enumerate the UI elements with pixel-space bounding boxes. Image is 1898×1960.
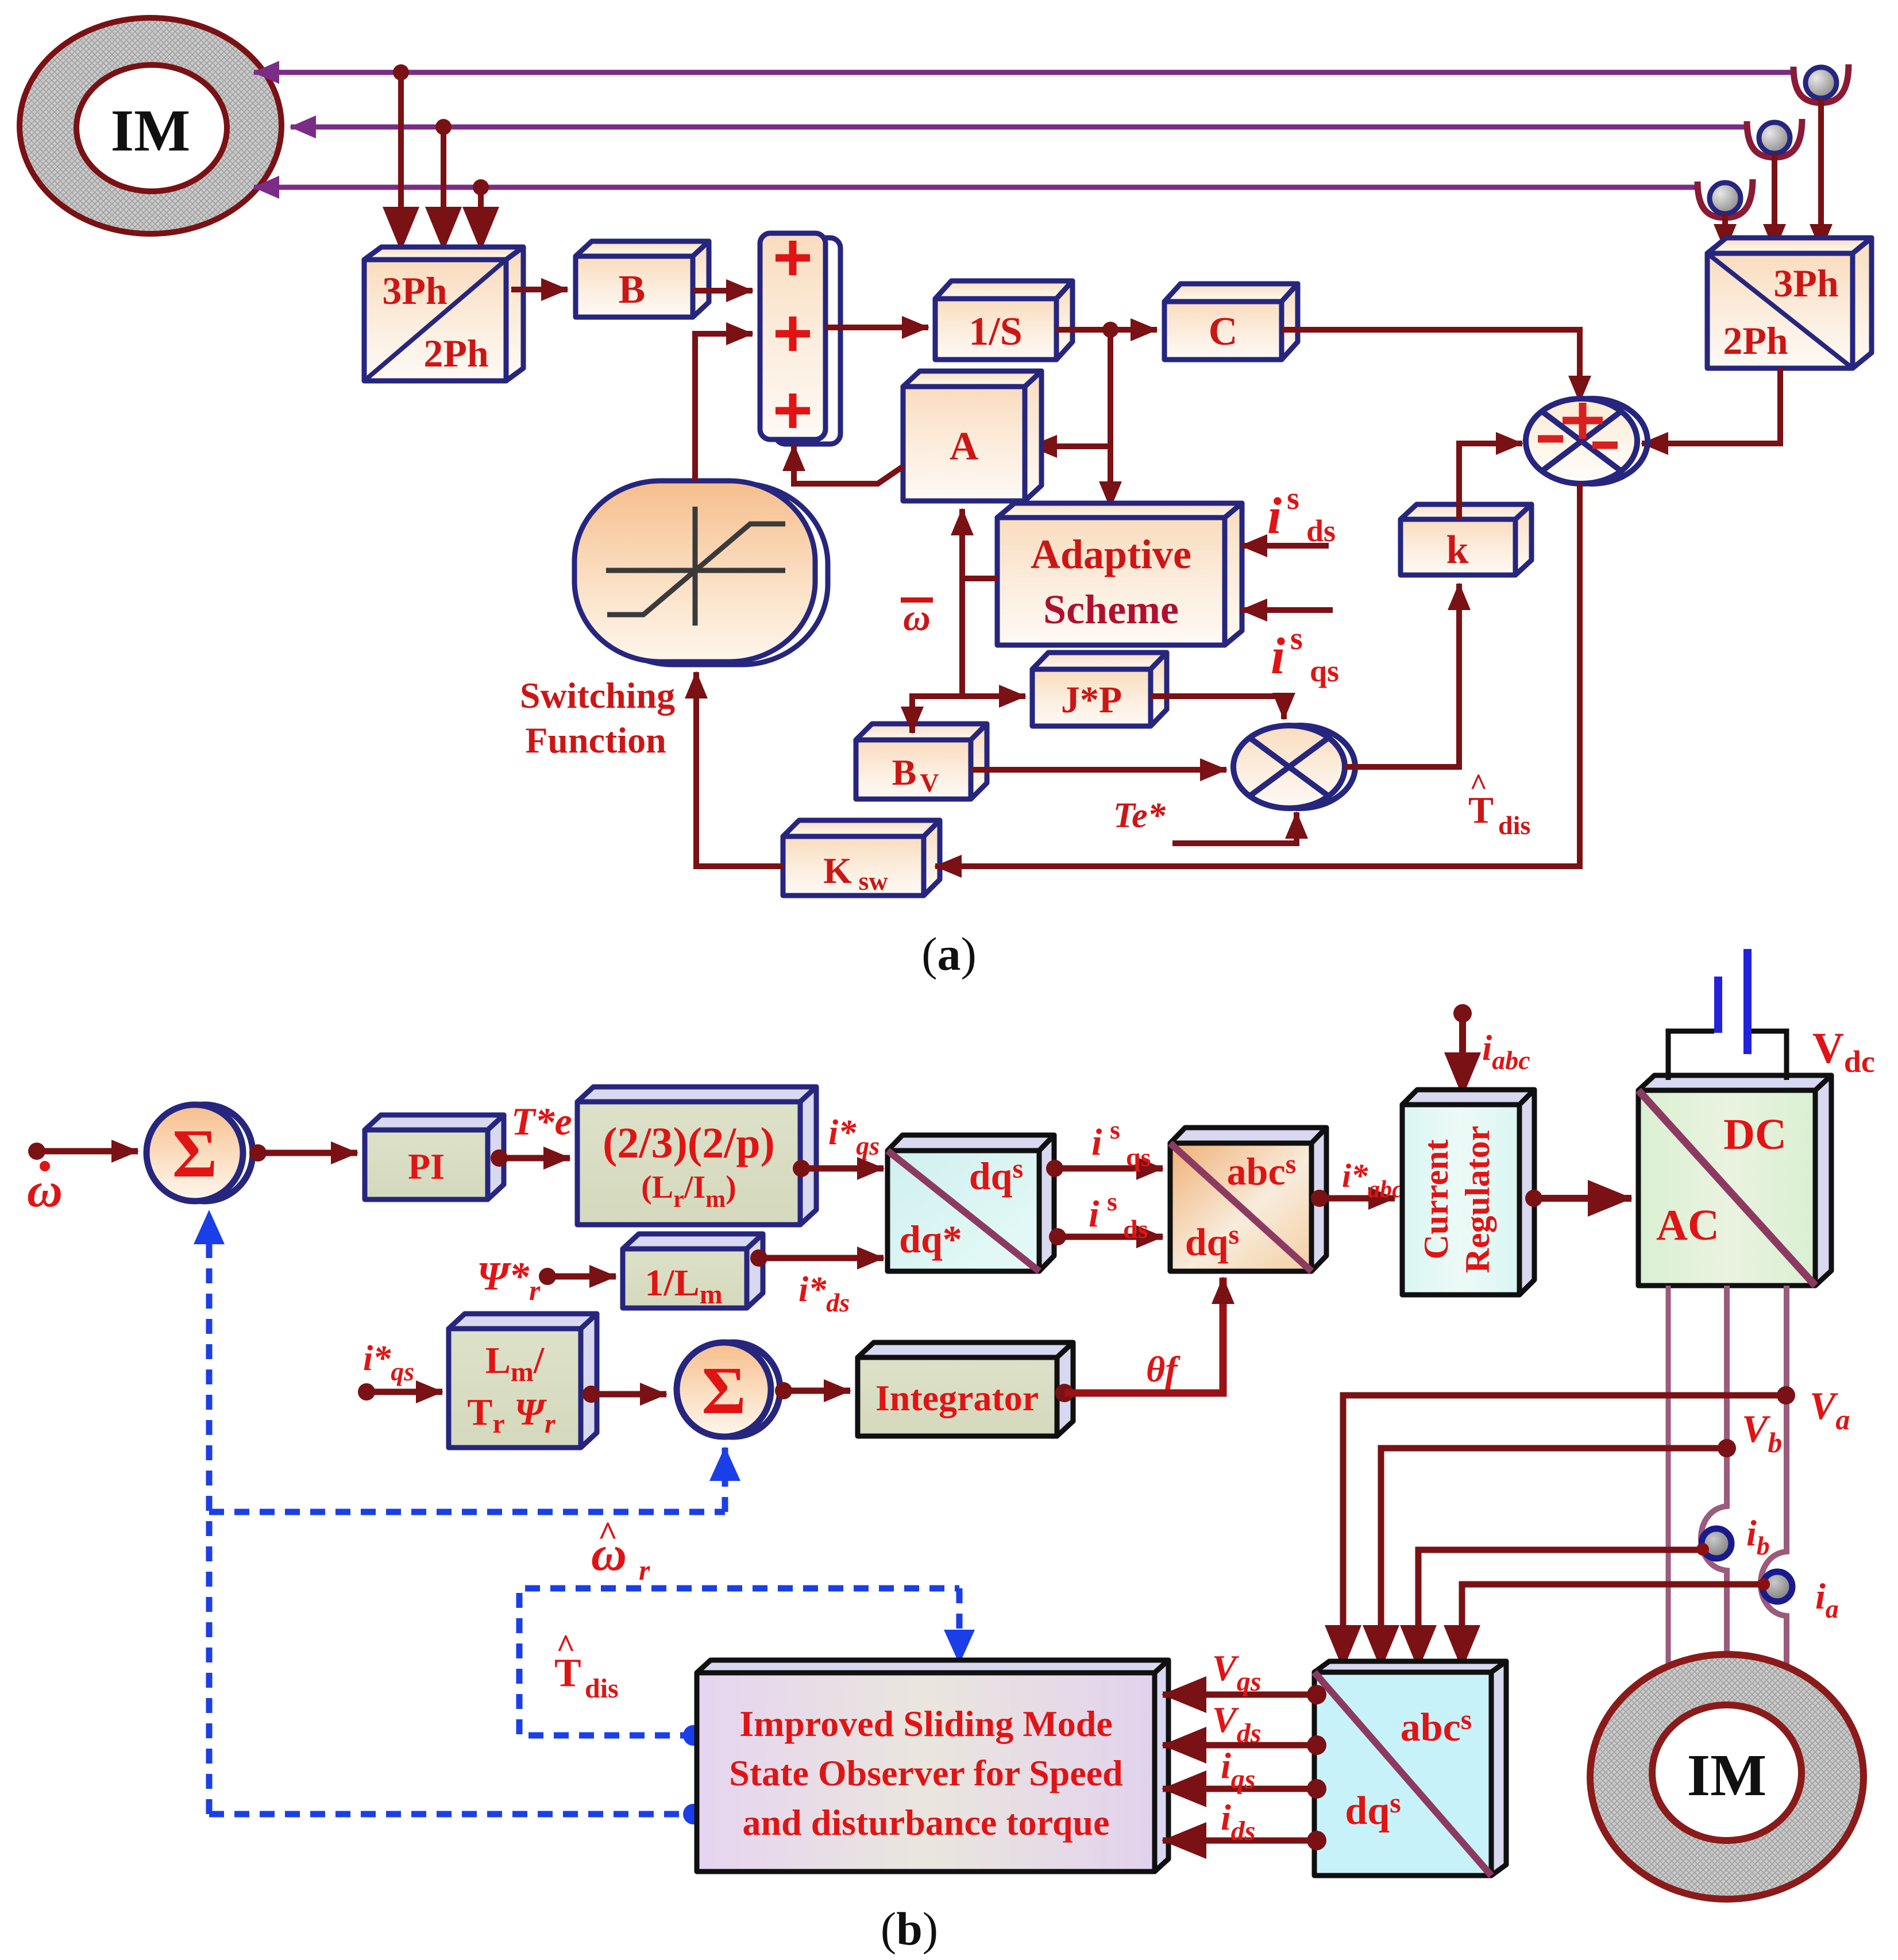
wire: current regulator to inverter: [1534, 1195, 1631, 1202]
input omega-dot-star node: [28, 1143, 45, 1160]
wire: sum2 to Integrator: [784, 1388, 850, 1394]
label is-qs (between dq and abc): [1091, 1115, 1151, 1172]
blue dashed: sum2 riser: [722, 1448, 728, 1512]
wire: Va feedback to measurement abc box: [1343, 1395, 1786, 1669]
node: 1/Lm output: [750, 1249, 767, 1267]
svg-text:ω: ω: [903, 597, 931, 639]
wire: Ksw output left and up into switching function: [696, 672, 783, 866]
svg-text:^: ^: [1469, 767, 1487, 802]
wire: Lm/Tr to sum2: [591, 1391, 666, 1398]
wire: dq to abc (ds): [1058, 1234, 1163, 1240]
svg-text:dq*: dq*: [899, 1217, 962, 1261]
blue dashed: lower horizontal into observer: [209, 1811, 689, 1818]
svg-text:Regulator: Regulator: [1459, 1126, 1496, 1274]
wire: PI to (2/3)(2/p): [499, 1155, 570, 1162]
svg-text:B: B: [892, 752, 917, 793]
wire: motor phase line 2 (purple, y=221): [291, 125, 1749, 130]
wire: tee left and down into Bv: [912, 696, 962, 733]
svg-text:and disturbance torque: and disturbance torque: [743, 1802, 1110, 1843]
svg-text:θf: θf: [1146, 1349, 1181, 1390]
wire: integrator output theta-f up into abc block: [1064, 1278, 1223, 1393]
wire: inverter phase b with ib sensor bump: [1701, 1286, 1727, 1686]
svg-text:Improved Sliding Mode: Improved Sliding Mode: [739, 1703, 1113, 1744]
svg-text:A: A: [950, 425, 979, 469]
wire: Bv output to multiplier left: [971, 767, 1226, 773]
wire: B to summing block: [693, 288, 753, 294]
wire: multiplier output right and up into K: [1345, 584, 1459, 767]
svg-text:i: i: [1091, 1121, 1102, 1163]
block DC/AC inverter: [1638, 1075, 1831, 1286]
node i*qs input: [358, 1383, 375, 1400]
svg-text:C: C: [1209, 310, 1238, 354]
svg-text:k: k: [1446, 528, 1469, 572]
svg-text:State Observer for Speed: State Observer for Speed: [729, 1753, 1123, 1793]
wire: ids to observer: [1163, 1838, 1317, 1844]
current sensor hook 2: [1747, 119, 1802, 250]
blue node: observer upper-left: [683, 1725, 704, 1746]
node Va: [1777, 1386, 1795, 1405]
blue dashed: horizontal to sum2 riser: [209, 1509, 725, 1515]
svg-text:Scheme: Scheme: [1043, 587, 1179, 632]
block 1/S: [935, 281, 1073, 360]
wire: abc to current regulator: [1320, 1195, 1395, 1202]
node on phase line 2: [435, 119, 452, 135]
label i-s-qs (fig a): [1271, 621, 1339, 688]
svg-text:r: r: [639, 1554, 650, 1586]
svg-text:DC: DC: [1723, 1110, 1787, 1159]
block Bv: [856, 724, 987, 799]
wire: tee right into J*P: [962, 693, 1025, 699]
svg-text:2Ph: 2Ph: [423, 331, 488, 375]
label i-s-ds (fig a): [1267, 481, 1336, 548]
svg-text:i: i: [1267, 488, 1282, 545]
summing circle 2 (sigma): [677, 1342, 780, 1437]
blue dashed: omega-hat-r loop from observer left: [519, 1588, 959, 1735]
label omega-bar: [901, 597, 933, 639]
wire: i*qs to Lm/Tr block: [367, 1389, 442, 1395]
wire: iqs to observer: [1163, 1786, 1317, 1792]
blue dashed: sum1 riser: [206, 1211, 213, 1814]
label T-hat-dis (fig b): [554, 1627, 619, 1704]
battery Vdc: [1668, 949, 1787, 1080]
svg-text:ds: ds: [1123, 1214, 1148, 1244]
block 1/Lm: [623, 1234, 763, 1310]
wire: K up and right into summer left: [1459, 443, 1522, 519]
svg-text:(b): (b): [881, 1903, 938, 1955]
summer circle (+ - -): [1526, 399, 1648, 484]
block Lm/TrPsir: [449, 1314, 597, 1448]
wire: i_abc down into current regulator: [1459, 1013, 1466, 1096]
node: dq output qs: [1046, 1160, 1063, 1177]
svg-text:qs: qs: [1126, 1143, 1151, 1172]
wire: i-s-ds into Adaptive right: [1241, 543, 1329, 549]
svg-text:1/S: 1/S: [969, 310, 1022, 354]
label T-hat-dis (fig a): [1468, 767, 1530, 840]
svg-text:s: s: [1290, 621, 1303, 657]
svg-text:s: s: [1287, 481, 1299, 516]
label is-ds (between dq and abc): [1089, 1187, 1148, 1244]
induction motor IM (fig a): [20, 18, 281, 234]
wire: down to J*P / Bv tee: [959, 578, 965, 696]
wire: sum1 to PI: [258, 1150, 357, 1156]
wire: tap 1 down to 3Ph/2Ph left: [398, 72, 404, 250]
wire: inverter phase c with ia sensor bump: [1761, 1286, 1787, 1695]
svg-text:Function: Function: [525, 720, 666, 761]
svg-text:qs: qs: [1310, 654, 1339, 688]
node on phase line 1: [393, 64, 409, 80]
node: sum1 output: [249, 1144, 267, 1162]
wire: branch left into A: [1031, 443, 1110, 449]
wire: i-s-qs into Adaptive right: [1241, 607, 1333, 613]
label omega-dot-star: [27, 1161, 63, 1217]
node: current regulator output: [1525, 1190, 1542, 1207]
wire: tap 3 down: [478, 187, 484, 250]
svg-text:s: s: [1107, 1187, 1117, 1216]
node: PI output: [491, 1149, 508, 1167]
wire: switching function output up into summing block: [695, 334, 753, 481]
wire: A loop to summing block bottom: [794, 445, 903, 484]
svg-text:Te*: Te*: [1113, 796, 1166, 835]
svg-text:Adaptive: Adaptive: [1031, 531, 1191, 577]
svg-text:3Ph: 3Ph: [1773, 261, 1838, 305]
wire: summer output down and left into Ksw: [935, 484, 1580, 866]
switching function block (stadium with saturation curve): [574, 481, 828, 665]
node iqs: [1307, 1779, 1326, 1799]
node psi*r input: [539, 1268, 556, 1285]
node on phase line 3: [473, 179, 489, 195]
svg-text:Tr Ψr: Tr Ψr: [467, 1391, 556, 1439]
wire: 1/Lm to dq block: [759, 1255, 884, 1261]
block C: [1164, 284, 1298, 360]
current sensor ball ia: [1762, 1572, 1792, 1602]
block Ksw: [783, 820, 940, 896]
blue node: observer lower-left: [683, 1804, 704, 1824]
wire: ib feedback: [1418, 1550, 1707, 1669]
svg-text:dis: dis: [585, 1673, 619, 1704]
node: (2/3) output: [793, 1160, 810, 1177]
block Improved Sliding Mode State Observer: [697, 1660, 1168, 1872]
block Integrator: [858, 1342, 1073, 1436]
wire: (2/3) to dq block: [801, 1166, 884, 1172]
svg-text:Current: Current: [1417, 1140, 1455, 1260]
node Vb: [1718, 1439, 1736, 1457]
block A: [903, 371, 1041, 501]
block dqs/dq*: [888, 1135, 1054, 1271]
svg-text:(a): (a): [921, 928, 977, 980]
wire: 1/S to C with junction: [1056, 327, 1157, 333]
wire: Vb feedback: [1381, 1448, 1727, 1669]
induction motor IM (fig b): [1590, 1654, 1864, 1899]
node Vds: [1307, 1735, 1326, 1755]
node: abc output: [1311, 1190, 1328, 1207]
wire: motor phase line 3 (purple, y=326): [254, 185, 1700, 190]
wire: 3Ph/2Ph left to B: [511, 287, 568, 292]
svg-text:sw: sw: [858, 866, 888, 896]
wire: omega-hat from Adaptive left edge: [962, 576, 997, 581]
node on 1/S-C wire: [1102, 322, 1118, 338]
wire: input to sum1: [37, 1148, 138, 1155]
svg-text:^: ^: [598, 1515, 618, 1553]
summing block (vertical, three +): [760, 233, 840, 444]
wire: up into A bottom: [959, 509, 965, 578]
wire: right 3Ph/2Ph output down-left to summing junction: [1642, 368, 1780, 443]
wire: motor phase line 1 (purple, y=126): [254, 70, 1796, 75]
svg-text:Switching: Switching: [520, 675, 675, 716]
node ids: [1307, 1831, 1326, 1850]
node: integrator output: [1055, 1384, 1074, 1402]
wire: Te* input up into multiplier bottom: [1172, 812, 1297, 843]
wire: Vds to observer: [1163, 1742, 1317, 1749]
svg-text:T*e: T*e: [511, 1099, 572, 1143]
block B: [576, 241, 709, 317]
svg-text:i: i: [1271, 628, 1285, 685]
current sensor hook 3: [1698, 179, 1753, 250]
svg-text:Σ: Σ: [172, 1115, 217, 1191]
block abcs/dqs (measurement): [1314, 1661, 1506, 1876]
block (2/3)(2/p)(Lr/Im): [577, 1087, 816, 1225]
svg-text:i: i: [1089, 1193, 1100, 1235]
svg-text:dis: dis: [1498, 811, 1530, 840]
node: sum2 output: [775, 1382, 792, 1399]
svg-text:s: s: [1110, 1115, 1120, 1144]
wire: tap 2 down: [441, 127, 446, 250]
block PI: [365, 1115, 504, 1199]
svg-text:IM: IM: [1687, 1742, 1767, 1808]
svg-text:B: B: [619, 268, 646, 312]
svg-text:^: ^: [556, 1627, 576, 1665]
svg-text:IM: IM: [111, 98, 191, 164]
wire: psi*r to 1/Lm: [547, 1274, 616, 1280]
wire: J*P output to multiplier top: [1151, 696, 1284, 719]
node i_abc input: [1453, 1004, 1472, 1023]
svg-text:PI: PI: [408, 1146, 445, 1187]
block abcs/dqs (reference): [1170, 1128, 1326, 1271]
block K: [1401, 504, 1531, 575]
svg-text:3Ph: 3Ph: [382, 269, 447, 312]
wire: dq to abc (qs): [1055, 1166, 1163, 1172]
label omega-hat-r: [591, 1515, 650, 1586]
svg-text:AC: AC: [1656, 1201, 1719, 1249]
block Adaptive Scheme: [997, 503, 1242, 645]
wire: junction down to Adaptive Scheme: [1108, 330, 1113, 508]
wire: C output right and down into summer: [1282, 330, 1580, 402]
svg-text:J*P: J*P: [1061, 679, 1122, 721]
svg-text:2Ph: 2Ph: [1723, 319, 1788, 362]
wire: ia feedback: [1462, 1584, 1767, 1669]
blue dashed: down arrow into observer top: [956, 1588, 963, 1663]
svg-text:(2/3)(2/p): (2/3)(2/p): [603, 1119, 775, 1167]
wire: summing block to 1/S: [825, 325, 928, 330]
svg-text:V: V: [920, 768, 939, 797]
block Current Regulator: [1402, 1090, 1534, 1295]
summing circle 1 (sigma): [146, 1105, 253, 1201]
block J*P: [1032, 653, 1167, 726]
node Vqs: [1307, 1685, 1326, 1704]
current sensor ball ib: [1702, 1529, 1731, 1558]
node: dq output ds: [1049, 1228, 1066, 1245]
node: Lm/Tr output: [582, 1386, 600, 1403]
current sensor hook 1 (top right): [1793, 64, 1849, 250]
svg-text:Σ: Σ: [701, 1353, 746, 1428]
multiplier circle (x): [1233, 726, 1355, 808]
block 3Ph/2Ph (left): [364, 247, 523, 381]
svg-text:Integrator: Integrator: [875, 1378, 1039, 1418]
svg-text:K: K: [823, 850, 852, 891]
block 3Ph/2Ph (right): [1707, 238, 1872, 368]
wire: inverter phase a (purple) down to motor: [1666, 1286, 1671, 1699]
wire: Vqs to observer: [1163, 1692, 1317, 1698]
